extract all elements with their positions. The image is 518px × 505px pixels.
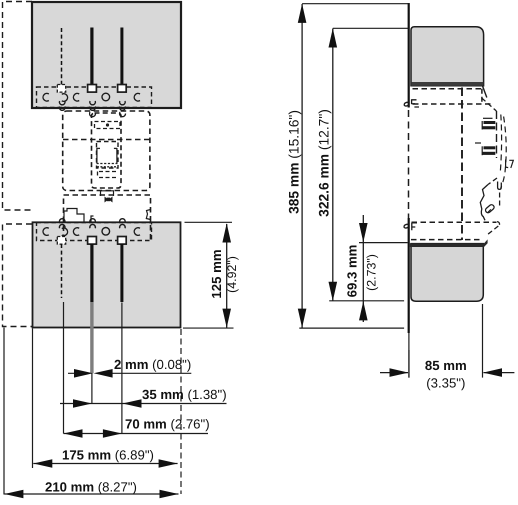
svg-text:70 mm (2.76"): 70 mm (2.76") — [125, 417, 210, 432]
svg-text:(3.35"): (3.35") — [426, 375, 465, 390]
svg-text:85 mm: 85 mm — [425, 358, 467, 373]
svg-text:175 mm (6.89"): 175 mm (6.89") — [62, 448, 154, 463]
svg-text:(2.73"): (2.73") — [365, 254, 379, 291]
svg-text:69.3 mm: 69.3 mm — [344, 245, 359, 298]
svg-text:35 mm (1.38"): 35 mm (1.38") — [142, 387, 227, 402]
svg-text:(4.92"): (4.92") — [225, 256, 239, 293]
svg-text:210 mm (8.27"): 210 mm (8.27") — [45, 479, 137, 494]
svg-text:322.6 mm (12.7"): 322.6 mm (12.7") — [317, 109, 332, 217]
svg-text:2 mm (0.08"): 2 mm (0.08") — [114, 357, 191, 372]
svg-text:125 mm: 125 mm — [209, 249, 224, 298]
svg-text:385 mm (15.16"): 385 mm (15.16") — [286, 110, 301, 214]
